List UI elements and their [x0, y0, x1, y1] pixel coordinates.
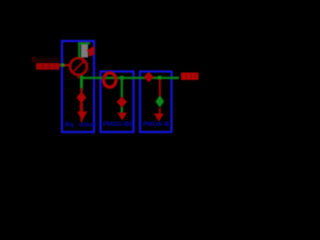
arrow diamond on bus in box Q3 — [144, 72, 154, 82]
current source I1 (red circle with arrow) — [70, 58, 87, 75]
box Q3 (right block outline) — [140, 72, 172, 133]
node junction Q3 gate (green) — [158, 76, 161, 80]
arrow diamond on Q1 drop — [76, 92, 86, 104]
potentiometer P1 (green frame, grey body, red wiper arrow) — [81, 44, 88, 58]
label blob out (red text right) — [181, 73, 199, 81]
arrowhead bottom Q3 — [154, 114, 164, 122]
arrow diamond on Q2 drop — [117, 97, 127, 108]
transistor gate bar Q1 (green vertical bar) — [80, 76, 83, 92]
node junction Q2 gate (green) — [120, 76, 123, 80]
wire red lead into box — [59, 64, 70, 66]
box Q2 (middle block outline) — [101, 72, 134, 133]
svg-text:PMOS-BS: PMOS-BS — [103, 121, 134, 128]
wire vertical drop in box Q3 (red/green mix) — [159, 79, 161, 99]
faint ghost dot — [32, 57, 37, 63]
svg-text:Bq: Bq — [65, 122, 74, 129]
arrowhead bottom Q2 — [117, 113, 127, 121]
wire main horizontal green bus — [82, 77, 178, 79]
svg-text:PMOS-B: PMOS-B — [143, 121, 169, 128]
wire vertical drop in box Q2 (green) — [121, 77, 123, 116]
node junction (green dot on left edge) — [61, 63, 64, 66]
wire green stub to output — [171, 77, 179, 79]
arrowhead bottom Q1 — [77, 112, 87, 121]
label blob Iref (red text left) — [36, 63, 60, 70]
lamp/port symbol (red ring on box Q2 left edge) — [104, 73, 116, 87]
svg-text:dmos: dmos — [79, 122, 97, 129]
wire vertical drop in box Q1 (red) — [80, 88, 82, 122]
wire red stub from source bottom — [77, 75, 79, 79]
box Q1 (left tall block outline) — [62, 41, 94, 132]
